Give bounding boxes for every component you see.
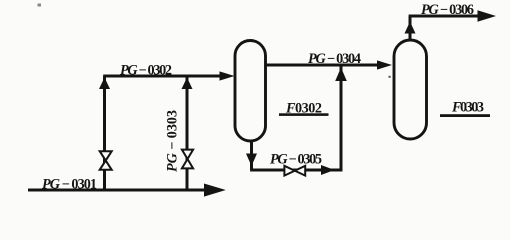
valve PG-0305 (horizontal) — [284, 166, 305, 176]
speck top-left (scan noise) — [38, 4, 42, 7]
wire PG-0302 horizontal line — [103, 75, 222, 78]
wire PG-0306 horizontal line — [409, 15, 479, 18]
arrow flow up on left riser — [99, 78, 110, 90]
vessel F0303 (separator drum 2) — [394, 40, 427, 139]
wire PG-0301 bottom main line — [28, 189, 206, 192]
wire vessel2 top vertical — [409, 16, 412, 40]
wire PG-0304 horizontal line — [266, 64, 379, 67]
svg-text:PG − 0302: PG − 0302 — [120, 62, 172, 78]
svg-text:PG − 0304: PG − 0304 — [308, 51, 361, 67]
arrow flow up above vessel F0303 — [405, 22, 416, 34]
speck near PG-0304 — [389, 76, 391, 78]
svg-text:PG − 0306: PG − 0306 — [421, 2, 474, 18]
valve on second riser (PG-0303) — [182, 150, 193, 169]
wire riser from PG-0305 to PG-0304 — [340, 66, 343, 171]
wire left riser — [103, 76, 106, 191]
arrow PG-0304 into vessel F0303 — [377, 60, 392, 69]
svg-text:F0303: F0303 — [451, 99, 484, 115]
underline F0302 — [279, 113, 329, 116]
svg-text:PG − 0305: PG − 0305 — [270, 152, 322, 168]
wire vessel drain vertical — [250, 140, 253, 170]
arrow main outlet PG-0301 (large, right) — [204, 184, 226, 197]
arrow outlet PG-0306 (large, right) — [478, 10, 497, 21]
svg-text:PG − 0301: PG − 0301 — [42, 176, 97, 192]
wire second riser (PG-0303) — [186, 77, 189, 191]
valve on left riser — [100, 151, 112, 170]
arrow flow up on riser joining PG-0304 — [335, 68, 347, 82]
arrow flow up on second riser — [182, 78, 193, 90]
svg-text:PG − 0303: PG − 0303 — [165, 110, 181, 172]
arrow PG-0302 into vessel F0302 — [220, 71, 235, 80]
underline F0303 — [440, 114, 490, 117]
vessel F0302 (separator drum 1) — [235, 41, 266, 142]
arrow flow down on vessel drain — [246, 154, 257, 167]
arrow flow right on PG-0305 — [321, 165, 335, 175]
wire PG-0305 horizontal line — [250, 169, 342, 172]
